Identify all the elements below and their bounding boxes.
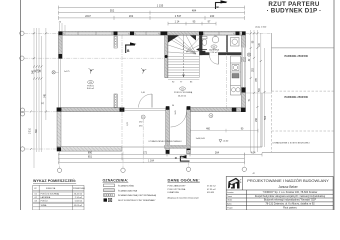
svg-text:LP.: LP. xyxy=(34,188,37,190)
stair bottom dim xyxy=(168,79,199,81)
grid bubble A left xyxy=(20,31,25,151)
svg-text:2 510: 2 510 xyxy=(29,127,31,133)
round basin xyxy=(212,36,219,43)
svg-text:DANE OGÓLNE:: DANE OGÓLNE: xyxy=(168,178,200,183)
bottom grid bubble 3 xyxy=(186,167,190,171)
svg-text:4,64: 4,64 xyxy=(251,152,256,155)
top dimension line 3 xyxy=(59,16,245,20)
svg-text:ŚCIANA DZIAŁOWA: ŚCIANA DZIAŁOWA xyxy=(118,189,138,192)
svg-text:47.35 m2: 47.35 m2 xyxy=(207,189,217,191)
right wall window 2 xyxy=(242,62,246,87)
left dim chain ticks xyxy=(30,32,47,150)
svg-text:±0,00: ±0,00 xyxy=(223,141,229,143)
svg-text:420 M3: 420 M3 xyxy=(207,192,215,194)
svg-text:97: 97 xyxy=(208,21,211,24)
svg-text:Projekt: Projekt xyxy=(227,206,233,209)
newel dot xyxy=(165,55,168,58)
threshold hatch between stubs xyxy=(165,145,191,148)
svg-text:WYKAZ POMIESZCZEŃ:: WYKAZ POMIESZCZEŃ: xyxy=(33,178,76,183)
column top wall mid2 xyxy=(161,32,168,36)
svg-text:PROJEKTOWANIE I NADZÓR BUDOWLA: PROJEKTOWANIE I NADZÓR BUDOWLANY xyxy=(247,178,329,183)
svg-text:· BUDYNEK D1P ·: · BUDYNEK D1P · xyxy=(267,8,322,15)
axis dash-dot lines left xyxy=(24,33,165,149)
svg-text:2247: 2247 xyxy=(85,14,91,18)
svg-text:78-131 Dziwnów, ul. Ku Morzu,: 78-131 Dziwnów, ul. Ku Morzu, działka nr… xyxy=(265,203,315,206)
svg-text:272: 272 xyxy=(143,152,148,155)
paved bubble 1 xyxy=(141,115,145,119)
column top wall right xyxy=(236,32,240,36)
section flag B mid xyxy=(125,45,135,54)
svg-text:26.42 m2: 26.42 m2 xyxy=(74,194,83,196)
bath door opening gap xyxy=(210,52,219,55)
bottom window lines xyxy=(124,108,166,110)
fan symbol left xyxy=(89,68,94,74)
paved dim line xyxy=(190,129,258,133)
svg-text:564: 564 xyxy=(265,115,267,120)
svg-text:Budynek rekreacji indywidualne: Budynek rekreacji indywidualnej "Nevada"… xyxy=(264,199,317,202)
left dim numbers (rotated) xyxy=(29,68,46,134)
svg-text:KUBATURA: KUBATURA xyxy=(168,191,180,194)
left dim lines xyxy=(34,28,46,168)
svg-text:292: 292 xyxy=(139,122,143,124)
svg-text:POW. ZABUDOWY: POW. ZABUDOWY xyxy=(168,185,187,188)
column top wall mid1 xyxy=(130,32,134,36)
column bottom wall B mid xyxy=(232,108,237,112)
svg-text:ŁAZIENKA: ŁAZIENKA xyxy=(41,196,51,199)
KITCHEN COUNTERS right xyxy=(231,56,241,95)
grid dash-dot vline terrace xyxy=(142,119,144,163)
bottom grid bubble 2 xyxy=(121,168,125,172)
legend item 1 xyxy=(104,184,115,187)
svg-text:B: B xyxy=(217,5,220,9)
top dimension line 1 xyxy=(59,6,245,10)
svg-text:651: 651 xyxy=(88,156,93,159)
svg-text:5.84 m2: 5.84 m2 xyxy=(75,200,83,202)
parking left edge xyxy=(271,33,273,91)
svg-text:240: 240 xyxy=(210,14,215,18)
column bottom-left xyxy=(57,108,62,112)
parking top edge xyxy=(272,47,334,49)
column lower stub left top xyxy=(166,106,170,110)
svg-text:Adaptacja do warunków miejscow: Adaptacja do warunków miejscowych xyxy=(168,196,199,199)
legend item 3 xyxy=(104,194,115,197)
svg-text:2 537: 2 537 xyxy=(175,14,182,18)
door tag box xyxy=(200,51,205,55)
svg-text:77: 77 xyxy=(180,81,183,83)
lower wall stub left xyxy=(166,108,170,154)
svg-text:"NORDO" Sp. z o.o. Kraków 100,: "NORDO" Sp. z o.o. Kraków 100, 78-600 Kr… xyxy=(263,191,318,194)
column lower stub right mid xyxy=(187,147,191,150)
svg-text:Zespół budynków usługowo-socja: Zespół budynków usługowo-socjalnych i re… xyxy=(255,195,326,198)
svg-text:24: 24 xyxy=(59,21,62,23)
svg-text:Inwestor: Inwestor xyxy=(227,191,234,194)
svg-text:SUMA: SUMA xyxy=(41,204,47,207)
top exterior wall xyxy=(59,32,246,36)
connector line wall to parking xyxy=(246,92,272,94)
svg-text:890: 890 xyxy=(36,128,38,133)
paved bottom edge xyxy=(122,146,262,148)
svg-text:B: B xyxy=(175,156,178,160)
top dimension line 2 xyxy=(59,11,245,15)
bottom wall A xyxy=(57,108,124,112)
paved right edge xyxy=(261,93,263,147)
stair walking line xyxy=(183,42,185,77)
column top-left corner xyxy=(59,32,63,36)
svg-text:Temat: Temat xyxy=(227,195,232,198)
svg-text:1,05: 1,05 xyxy=(127,121,129,126)
svg-text:ŚCIANA DZIAŁOWA (OSZT.WYMAGAJĄ: ŚCIANA DZIAŁOWA (OSZT.WYMAGAJĄ xyxy=(118,194,157,197)
svg-text:1,40: 1,40 xyxy=(141,92,146,94)
TITLE BLOCK xyxy=(226,177,333,211)
door arc lower xyxy=(171,112,187,128)
bottom grid bubble 1 xyxy=(57,168,61,172)
svg-text:skala 1:100: skala 1:100 xyxy=(255,27,267,29)
door arrow bath xyxy=(197,49,207,51)
svg-text:PARKING 250X500: PARKING 250X500 xyxy=(285,96,309,99)
svg-text:Obiekt: Obiekt xyxy=(227,199,232,202)
logo house xyxy=(228,178,242,189)
bath door arc xyxy=(210,55,219,64)
svg-text:Janusz Beker: Janusz Beker xyxy=(278,185,298,189)
parking divider 1 xyxy=(272,90,334,92)
svg-text:42: 42 xyxy=(253,173,256,175)
svg-text:45.03 m2: 45.03 m2 xyxy=(74,205,83,207)
svg-text:552: 552 xyxy=(110,9,115,13)
right dim chain ticks xyxy=(250,32,266,108)
svg-text:57.60 m2: 57.60 m2 xyxy=(207,186,217,188)
section flag top B xyxy=(215,2,227,9)
svg-text:POKÓJ Z KUCHNIĄ: POKÓJ Z KUCHNIĄ xyxy=(41,193,60,196)
svg-text:1 14: 1 14 xyxy=(175,21,180,24)
partition stub top (glass block) xyxy=(114,36,117,48)
grid dash-dot vline mid xyxy=(121,35,123,147)
bottom axis stubs xyxy=(60,152,245,169)
svg-text:83: 83 xyxy=(190,81,193,83)
svg-text:484: 484 xyxy=(192,9,197,13)
bottom wall B xyxy=(190,108,245,112)
room 01 label xyxy=(180,87,186,90)
svg-text:2.18 m2: 2.18 m2 xyxy=(210,52,218,54)
svg-text:90: 90 xyxy=(241,129,244,131)
svg-text:SŁUP KONSTRUKCYJNY DREWNIANY: SŁUP KONSTRUKCYJNY DREWNIANY xyxy=(118,199,156,202)
room 03 label xyxy=(88,81,94,84)
bath divider wall xyxy=(226,35,227,52)
stair well xyxy=(168,35,199,77)
svg-text:UTWARDZENIE DREWN.TARASU: UTWARDZENIE DREWN.TARASU xyxy=(149,140,183,143)
frame left xyxy=(20,0,22,210)
right dim lines xyxy=(251,30,265,152)
svg-text:21: 21 xyxy=(42,101,44,104)
top wall window lines xyxy=(66,32,128,35)
svg-text:POW. UŻYTKOWA: POW. UŻYTKOWA xyxy=(168,188,186,191)
corner dim stubs top-left xyxy=(60,23,66,31)
column bottom wall A right xyxy=(120,108,125,112)
right wall window 1 xyxy=(242,48,246,58)
terrace left edge band xyxy=(57,112,61,152)
bath room label 02 xyxy=(211,45,217,48)
svg-text:460: 460 xyxy=(206,129,211,131)
svg-text:B: B xyxy=(240,182,242,184)
svg-text:OZNACZENIA:: OZNACZENIA: xyxy=(103,178,129,182)
svg-text:90: 90 xyxy=(172,81,175,83)
stair dark wedge xyxy=(168,35,179,42)
BOTTOM DIMS xyxy=(59,153,263,157)
svg-text:2.14 m2: 2.14 m2 xyxy=(75,197,83,199)
fan symbol right xyxy=(141,68,146,74)
stair side wall xyxy=(165,35,168,78)
svg-text:202: 202 xyxy=(129,14,134,18)
top dimension line 4 (partial) xyxy=(168,22,216,26)
right exterior wall xyxy=(242,35,246,108)
column right wall mid xyxy=(242,88,246,93)
svg-text:2x25: 2x25 xyxy=(175,110,177,114)
column bottom-right corner xyxy=(241,108,246,112)
svg-text:1 155: 1 155 xyxy=(157,4,164,8)
parking bottom edge xyxy=(262,151,334,153)
svg-text:Rzut parteru: Rzut parteru xyxy=(283,206,297,209)
svg-text:UTWARDZENIE Z KOSTKI BRUKOWEJ: UTWARDZENIE Z KOSTKI BRUKOWEJ xyxy=(273,141,310,144)
svg-text:264: 264 xyxy=(215,152,220,155)
window axis marker (circle-x) xyxy=(52,71,55,74)
grid dash-dot vline right xyxy=(225,35,227,112)
bottom grid bubble 4 xyxy=(242,167,246,171)
legend item 4 xyxy=(104,198,108,201)
svg-text:90: 90 xyxy=(172,105,174,107)
column top wall mid3 xyxy=(199,32,203,36)
svg-text:1 164: 1 164 xyxy=(148,161,154,163)
svg-text:FUNKCJA: FUNKCJA xyxy=(46,187,56,190)
parking divider 2 xyxy=(272,130,334,132)
svg-text:ŚCIANA NOŚNA: ŚCIANA NOŚNA xyxy=(118,185,134,188)
left exterior wall xyxy=(59,35,63,58)
svg-text:890: 890 xyxy=(88,152,93,155)
svg-text:1x175: 1x175 xyxy=(64,71,70,73)
section flag B bottom xyxy=(180,156,190,162)
paved bubble 2 xyxy=(209,114,213,118)
terrace door arc xyxy=(139,94,153,108)
column pillar junction xyxy=(114,32,118,36)
svg-text:B: B xyxy=(127,49,130,53)
bathroom left wall xyxy=(199,35,202,55)
svg-text:POWIERZCHNIA: POWIERZCHNIA xyxy=(73,187,85,190)
legend item 2 xyxy=(104,189,115,192)
bathroom bottom wall xyxy=(199,52,241,55)
window marker right xyxy=(247,53,250,56)
svg-text:POKÓJ: POKÓJ xyxy=(41,199,48,202)
svg-text:POKÓJ Z KUCHNIĄ: POKÓJ Z KUCHNIĄ xyxy=(174,91,193,94)
wc xyxy=(202,37,207,46)
svg-text:504: 504 xyxy=(181,156,186,159)
column lower stub right top xyxy=(187,106,191,110)
column left wall end xyxy=(59,54,63,59)
lower wall stub right xyxy=(187,108,191,154)
title block rows xyxy=(227,191,234,209)
svg-text:1x60,2x20: 1x60,2x20 xyxy=(196,138,206,140)
terrace band corner block xyxy=(57,147,61,151)
svg-text:95: 95 xyxy=(193,21,196,24)
svg-text:PARKING 250X500: PARKING 250X500 xyxy=(285,55,309,58)
partition stub bottom (glass block) xyxy=(114,94,117,108)
svg-text:8.06 m2: 8.06 m2 xyxy=(87,88,95,90)
frame right xyxy=(333,0,335,210)
left window (glazing) xyxy=(59,59,61,108)
column lower stub left bottom xyxy=(166,150,170,154)
svg-text:490: 490 xyxy=(139,125,143,127)
terrace bottom band xyxy=(57,147,122,151)
axis connector to parking xyxy=(246,32,272,34)
svg-text:26.42 m2: 26.42 m2 xyxy=(178,96,187,98)
level marker paved xyxy=(219,140,222,143)
shower xyxy=(231,38,240,47)
column top-right corner xyxy=(242,32,246,36)
svg-text:Adres: Adres xyxy=(227,203,232,206)
